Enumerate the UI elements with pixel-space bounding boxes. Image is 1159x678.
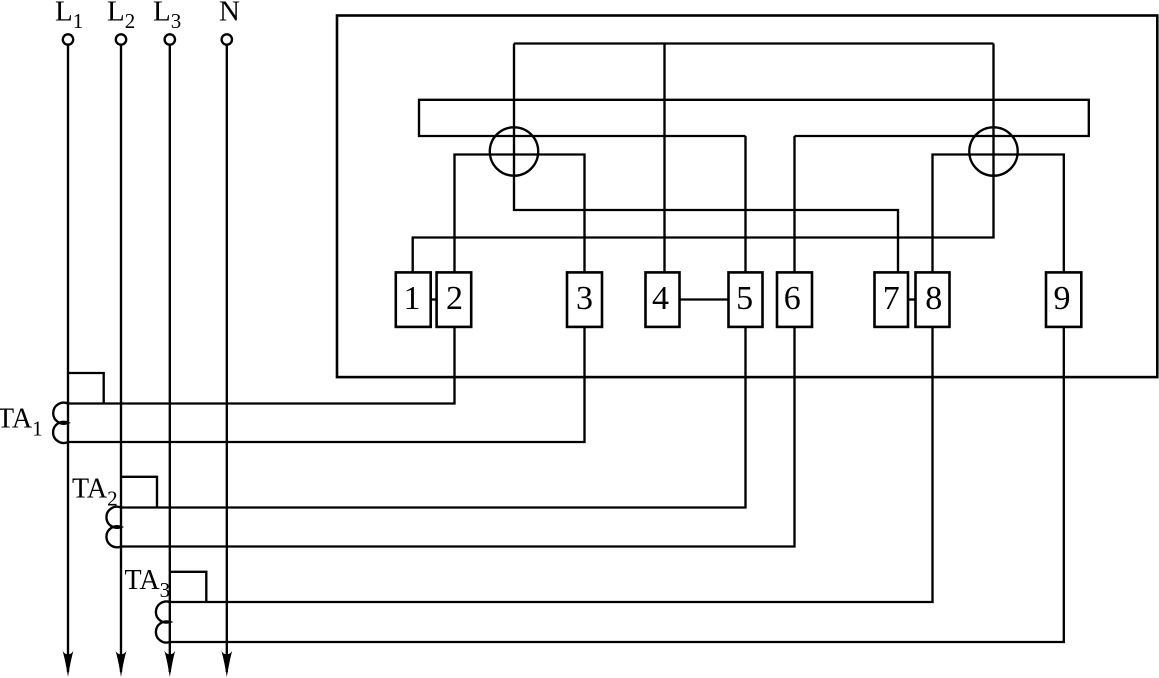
TA3 primary jumper <box>170 572 207 602</box>
TA1 primary jumper <box>68 373 104 404</box>
svg-text:1: 1 <box>404 280 421 317</box>
voltage bar <box>419 100 1089 136</box>
wire through coil 1 to terminal 7 <box>514 44 898 273</box>
arrow L2 <box>116 651 127 677</box>
svg-text:2: 2 <box>446 280 463 317</box>
current coil circle 1 <box>490 127 538 175</box>
svg-text:L2: L2 <box>107 0 135 33</box>
svg-text:7: 7 <box>883 280 900 317</box>
svg-text:5: 5 <box>736 280 753 317</box>
svg-text:N: N <box>219 0 240 28</box>
wire bar to terminal 5 <box>744 136 746 273</box>
wire terminal 2 to TA1 secondary top <box>68 327 455 404</box>
terminal box 7 <box>875 272 909 327</box>
arrow L3 <box>164 651 175 677</box>
terminal box 3 <box>567 272 602 327</box>
terminal box 5 <box>729 272 763 327</box>
svg-text:3: 3 <box>576 280 593 317</box>
terminal box 8 <box>916 272 950 327</box>
wire terminal 8 to TA3 secondary top <box>170 327 933 602</box>
svg-text:L1: L1 <box>55 0 83 33</box>
CT TA3 secondary winding <box>156 601 170 642</box>
arrow N <box>221 651 232 677</box>
svg-text:TA3: TA3 <box>125 565 171 602</box>
meter case <box>337 16 1157 378</box>
svg-text:6: 6 <box>784 280 801 317</box>
current coil circle 2 <box>969 127 1017 175</box>
terminal circle L3 <box>165 34 175 44</box>
wire to terminal 4 <box>663 44 665 273</box>
coil 2 loop to terminals 8 and 9 <box>933 155 1064 273</box>
terminal box 2 <box>437 272 472 327</box>
wire terminal 6 to TA2 secondary bottom <box>121 327 795 547</box>
top internal wire <box>514 42 994 44</box>
svg-text:8: 8 <box>925 280 942 317</box>
svg-text:4: 4 <box>652 280 669 317</box>
svg-text:TA2: TA2 <box>72 474 118 511</box>
CT TA1 secondary winding <box>53 403 68 443</box>
terminal box 9 <box>1046 272 1081 327</box>
wire terminal 9 to TA3 secondary bottom <box>170 327 1064 642</box>
wire terminal 3 to TA1 secondary bottom <box>68 327 585 442</box>
jumper terminals 1-2 <box>431 298 437 300</box>
jumper terminals 4-5 <box>680 298 729 300</box>
TA2 primary jumper <box>121 477 157 508</box>
terminal box 6 <box>777 272 812 327</box>
jumper terminals 7-8 <box>908 298 916 300</box>
wire line L3 <box>169 45 171 672</box>
wire line N <box>226 45 228 672</box>
wire bar to terminal 6 <box>793 136 795 273</box>
svg-text:L3: L3 <box>153 0 181 33</box>
arrow L1 <box>63 651 74 677</box>
CT TA2 secondary winding <box>106 507 121 548</box>
wire line L2 <box>120 45 122 672</box>
wire terminal 5 to TA2 secondary top <box>121 327 746 508</box>
terminal circle N <box>222 34 232 44</box>
wire line L1 <box>67 45 69 672</box>
terminal box 4 <box>646 272 680 327</box>
terminal circle L1 <box>63 34 73 44</box>
terminal box 1 <box>396 272 431 327</box>
wire through coil 2 to terminal 1 <box>413 44 994 273</box>
coil 1 loop to terminals 2 and 3 <box>455 155 585 273</box>
terminal circle L2 <box>116 34 126 44</box>
svg-text:TA1: TA1 <box>0 404 43 441</box>
svg-text:9: 9 <box>1054 280 1071 317</box>
